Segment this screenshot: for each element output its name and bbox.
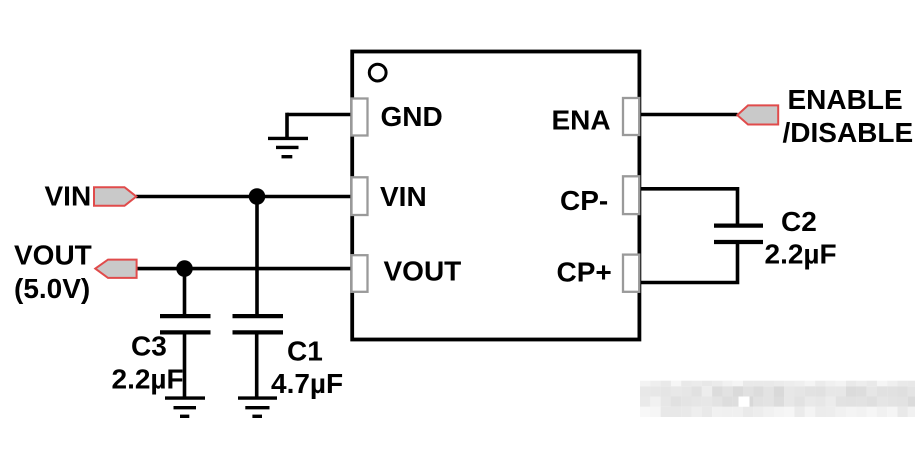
svg-text:/DISABLE: /DISABLE bbox=[783, 117, 914, 148]
svg-text:2.2µF: 2.2µF bbox=[112, 363, 184, 394]
svg-text:ENA: ENA bbox=[552, 104, 611, 135]
svg-text:2.2µF: 2.2µF bbox=[765, 238, 837, 269]
svg-text:GND: GND bbox=[381, 101, 443, 132]
svg-text:C1: C1 bbox=[287, 335, 323, 366]
svg-text:VOUT: VOUT bbox=[384, 255, 462, 286]
svg-text:C3: C3 bbox=[131, 330, 167, 361]
svg-text:VIN: VIN bbox=[380, 181, 427, 212]
svg-text:VIN: VIN bbox=[45, 180, 92, 211]
svg-text:CP-: CP- bbox=[560, 185, 608, 216]
svg-text:ENABLE: ENABLE bbox=[788, 84, 903, 115]
svg-text:CP+: CP+ bbox=[557, 257, 612, 288]
svg-text:VOUT: VOUT bbox=[14, 240, 92, 271]
svg-text:(5.0V): (5.0V) bbox=[14, 273, 90, 304]
svg-text:4.7µF: 4.7µF bbox=[271, 368, 343, 399]
svg-text:C2: C2 bbox=[781, 206, 817, 237]
